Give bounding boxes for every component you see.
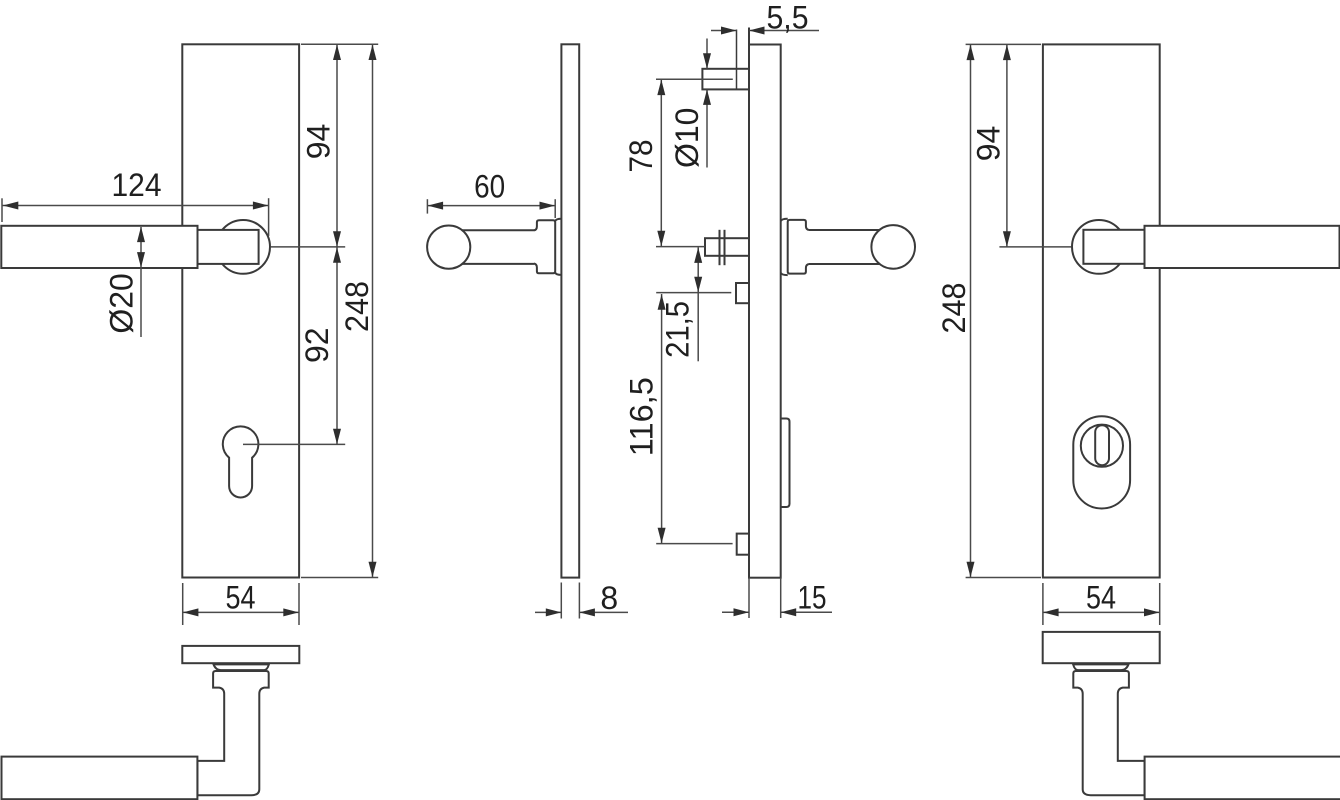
view4: handle neck bbox=[1083, 230, 1144, 264]
dim 78 line bbox=[660, 79, 662, 246]
topview right: rosette edge bbox=[1073, 664, 1128, 670]
view3: spindle nut lines bbox=[719, 230, 721, 265]
dim 54 extension lines right bbox=[1042, 583, 1044, 625]
dim 116,5 line bbox=[661, 294, 663, 543]
view4: handle grip bar bbox=[1145, 226, 1340, 268]
svg-text:94: 94 bbox=[971, 126, 1007, 162]
dim 94 line right view bbox=[1006, 44, 1008, 247]
dim 8 line right bbox=[579, 611, 628, 613]
view1: pointer line keyhole center bbox=[243, 443, 345, 445]
dim 60 extension lines bbox=[426, 199, 428, 213]
svg-text:Ø10: Ø10 bbox=[669, 108, 705, 168]
topview right: neck collar and shaft bbox=[1073, 671, 1144, 795]
view1: extension line bottom right bbox=[301, 577, 378, 579]
dim 248 line right view bbox=[970, 44, 972, 577]
svg-text:94: 94 bbox=[301, 124, 337, 160]
svg-text:15: 15 bbox=[798, 580, 827, 616]
dim D10 leaders bbox=[706, 39, 708, 69]
view3: handle ball end bbox=[871, 225, 915, 269]
svg-text:248: 248 bbox=[339, 281, 375, 332]
svg-text:60: 60 bbox=[474, 169, 505, 205]
view1: euro profile keyhole bbox=[223, 426, 259, 497]
view2: handle ball end bbox=[427, 226, 470, 269]
svg-text:8: 8 bbox=[600, 580, 618, 616]
view3: reference line 116,5 bottom bbox=[656, 543, 732, 545]
view2: plate profile bbox=[561, 44, 579, 577]
view3: spindle bbox=[705, 238, 749, 256]
svg-text:5,5: 5,5 bbox=[767, 0, 809, 36]
topview right: grip bar bbox=[1145, 757, 1340, 800]
view4: extension line bottom left bbox=[966, 577, 1041, 579]
dim 124 line bbox=[2, 205, 269, 207]
dim 5,5 line left bbox=[711, 30, 737, 32]
view4: cylinder bbox=[1081, 425, 1123, 467]
dim 124 extension lines bbox=[1, 198, 3, 222]
dim 8 extension lines bbox=[560, 583, 562, 619]
view3: bolt step / 5,5 extension line bbox=[736, 30, 738, 90]
view3: centerline top bolt bbox=[656, 78, 733, 80]
dim 8 line left bbox=[535, 611, 561, 613]
view1: extension line top right bbox=[301, 43, 378, 45]
view3: plate profile bbox=[749, 45, 781, 578]
view3: plate extension lines below bbox=[748, 578, 750, 618]
view4: pointer line handle center bbox=[999, 246, 1071, 248]
view2: rosette profile slice bbox=[555, 219, 561, 221]
svg-text:124: 124 bbox=[112, 167, 162, 203]
svg-text:54: 54 bbox=[1086, 579, 1116, 615]
topview left: rosette edge bbox=[214, 664, 269, 670]
dim 94 line bbox=[336, 44, 338, 247]
view3: rosette profile slice bbox=[781, 219, 788, 221]
svg-text:78: 78 bbox=[623, 140, 659, 173]
topview left: grip bar bbox=[2, 757, 198, 800]
svg-text:Ø20: Ø20 bbox=[104, 273, 140, 333]
dim D20 leader bbox=[140, 227, 142, 337]
dim 54 line bbox=[183, 611, 299, 613]
dim 54 extension lines bbox=[182, 583, 184, 625]
view3: cylinder housing bump on back bbox=[781, 419, 790, 508]
dim 54 line right bbox=[1043, 611, 1160, 613]
view3: lower fixing screw bbox=[737, 534, 749, 555]
view1: rosette circle bbox=[216, 220, 270, 274]
svg-text:116,5: 116,5 bbox=[624, 377, 660, 456]
dim 92 line bbox=[336, 247, 338, 445]
view4: rosette circle bbox=[1072, 220, 1126, 274]
svg-text:92: 92 bbox=[299, 327, 335, 363]
view3: handle collar profile bbox=[788, 220, 809, 274]
view2: handle collar profile bbox=[534, 220, 555, 273]
view3: upper fixing screw bbox=[736, 283, 749, 303]
dim 248 line bbox=[372, 44, 374, 577]
view3: centerline spindle bbox=[656, 246, 705, 248]
svg-text:54: 54 bbox=[226, 579, 256, 615]
dim 15 line right bbox=[781, 611, 832, 613]
view4: security cylinder oval rosette bbox=[1073, 416, 1130, 508]
view4: exterior backplate front bbox=[1043, 44, 1160, 577]
view1: handle neck bbox=[198, 230, 259, 264]
topview left: backplate edge bbox=[182, 646, 299, 663]
view4: key slot bbox=[1095, 425, 1109, 465]
svg-text:248: 248 bbox=[936, 283, 972, 334]
dim 5,5 line right bbox=[749, 30, 819, 32]
view1: interior backplate front bbox=[182, 44, 299, 577]
view3: plate face extension up bbox=[748, 28, 750, 45]
view2: handle shaft profile bbox=[450, 229, 534, 231]
view3: handle shaft profile bbox=[809, 229, 892, 231]
topview left: neck collar and shaft bbox=[197, 671, 268, 795]
view3: top fixing bolt bbox=[702, 69, 749, 90]
view4: extension line top left bbox=[966, 43, 1041, 45]
view1: pointer line handle center bbox=[271, 246, 345, 248]
dim 60 line bbox=[427, 205, 555, 207]
view1: handle grip bar bbox=[1, 226, 197, 268]
dim 15 line left bbox=[722, 611, 749, 613]
view3: reference line 21,5 bottom bbox=[656, 292, 731, 294]
dim 21,5 line bbox=[697, 247, 699, 361]
topview right: backplate edge bbox=[1043, 632, 1160, 663]
